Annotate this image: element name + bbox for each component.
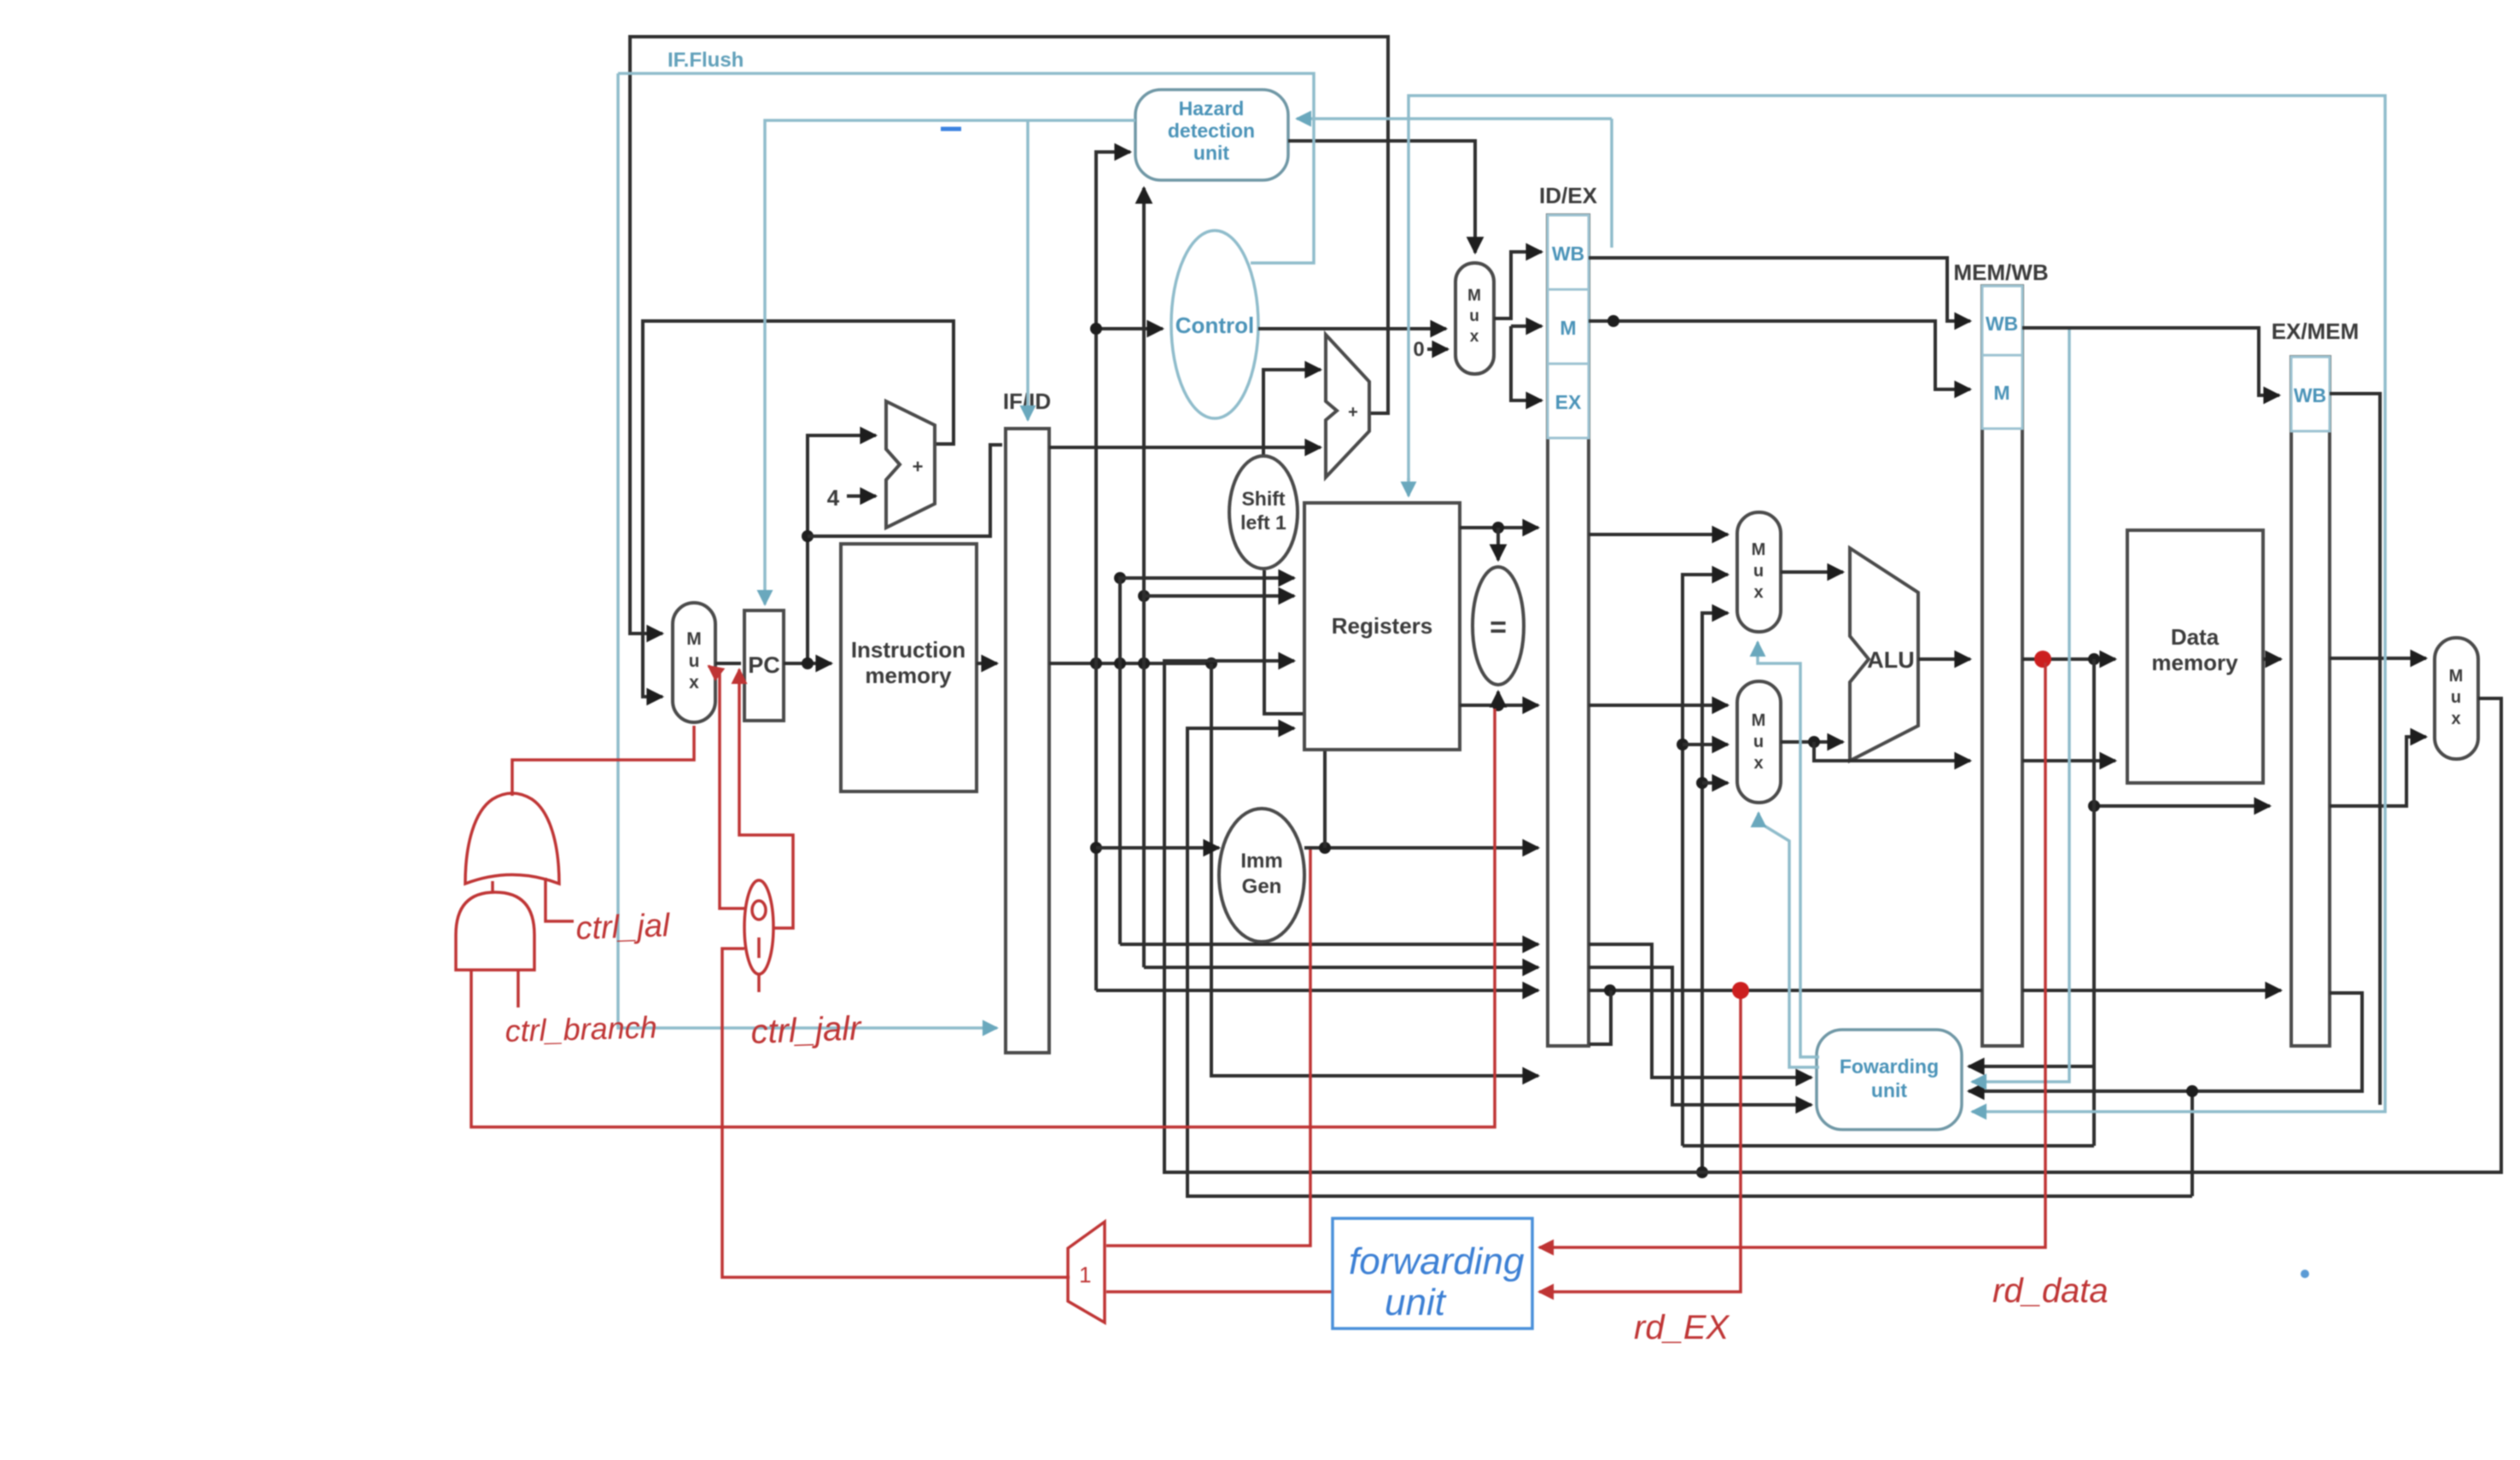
wire instr low field to ID/EX xyxy=(1211,663,1538,1076)
wire ID/EX rs1 to forwarding unit xyxy=(1589,944,1811,1077)
hand drawn forwarding unit box xyxy=(1333,1218,1532,1329)
adder A1 PC+4 xyxy=(886,401,935,528)
hazard detection unit xyxy=(1135,90,1288,180)
svg-text:memory: memory xyxy=(2151,650,2238,675)
wire ID/EX read2 to mux M4 xyxy=(1589,704,1728,707)
wire MEM/WB to data memory write port xyxy=(2022,759,2115,762)
wire OR input stub ctrl_jal xyxy=(545,878,574,921)
wire AND input right stub xyxy=(516,970,520,1007)
wire instr rs1 field to ID/EX xyxy=(1120,943,1538,946)
wire read data 1 to ID/EX xyxy=(1460,526,1538,529)
svg-text:M: M xyxy=(2449,667,2464,686)
wire red mux select into PC mux xyxy=(709,666,744,908)
svg-text:M: M xyxy=(686,629,702,649)
svg-text:rd_data: rd_data xyxy=(1992,1272,2109,1310)
gate OR red xyxy=(465,793,559,884)
wire PC+4 loop to PC mux xyxy=(643,321,954,697)
svg-text:unit: unit xyxy=(1193,142,1229,164)
svg-text:ctrl_jalr: ctrl_jalr xyxy=(750,1009,863,1051)
wire EX/MEM rd loop to forwarding unit xyxy=(1969,993,2362,1091)
EX/MEM WB box xyxy=(2291,357,2330,431)
forwarding unit box xyxy=(1817,1030,1962,1130)
wire ALU result feedback down xyxy=(2092,659,2096,1146)
data memory xyxy=(2127,530,2263,783)
svg-text:=: = xyxy=(1490,611,1507,644)
wire ALU result to forwarding unit xyxy=(1969,1065,2094,1068)
svg-text:MEM/WB: MEM/WB xyxy=(1953,260,2048,285)
red junction dot rd_EX xyxy=(1732,982,1749,999)
svg-text:u: u xyxy=(1753,562,1764,581)
wire forward fb EXMEM vertical xyxy=(1683,1144,2094,1148)
svg-text:M: M xyxy=(1752,540,1766,559)
svg-text:u: u xyxy=(1753,733,1764,751)
mux M1 (PC source) xyxy=(673,603,715,722)
svg-text:WB: WB xyxy=(1986,312,2018,335)
ellipse shift left 1 xyxy=(1229,456,1298,569)
wire EX/MEM WB to right rail xyxy=(2330,394,2380,1105)
instruction memory xyxy=(841,544,977,791)
svg-text:x: x xyxy=(2451,710,2460,728)
svg-text:x: x xyxy=(1753,583,1763,602)
wire blue ID/EX memread riser xyxy=(1610,119,1613,248)
wire blue down to forwarding unit xyxy=(1972,330,2069,1082)
svg-text:forwarding: forwarding xyxy=(1349,1241,1525,1282)
svg-text:IF.Flush: IF.Flush xyxy=(668,49,744,72)
wire instr to imm gen xyxy=(1096,846,1219,850)
wire OR output to PC mux xyxy=(512,726,694,796)
wire blue hazard to registers rail xyxy=(1409,96,2385,1112)
wire mux M3 to ALU xyxy=(1781,570,1843,574)
wire PC value to IF/ID xyxy=(808,445,1002,536)
wire instruction memory to IF/ID xyxy=(977,662,997,665)
ID/EX M box xyxy=(1548,289,1589,364)
svg-text:unit: unit xyxy=(1871,1079,1907,1101)
wire blue IF/ID write xyxy=(1026,120,1030,420)
wire instr rs2 field to ID/EX xyxy=(1144,966,1538,969)
wire store data down to MEM/WB and memory xyxy=(1814,742,1970,761)
svg-text:Fowarding: Fowarding xyxy=(1840,1055,1939,1077)
svg-text:memory: memory xyxy=(865,663,952,688)
gate AND red xyxy=(456,892,534,970)
wire instr to hazard unit xyxy=(1096,152,1130,990)
register MEM/WB xyxy=(1982,286,2022,1046)
wire read data 2 to ID/EX xyxy=(1460,704,1538,707)
svg-text:Control: Control xyxy=(1175,312,1254,338)
svg-text:unit: unit xyxy=(1385,1282,1447,1323)
svg-text:EX/MEM: EX/MEM xyxy=(2272,318,2360,344)
wire store data through EX/MEM to final mux xyxy=(2330,737,2426,806)
svg-text:0: 0 xyxy=(1413,338,1424,361)
svg-text:EX: EX xyxy=(1555,391,1582,413)
mux M2 control bubble xyxy=(1455,263,1494,374)
svg-text:1: 1 xyxy=(1079,1262,1091,1288)
svg-text:+: + xyxy=(1348,403,1358,422)
svg-text:Data: Data xyxy=(2171,624,2220,650)
wire mux to PC xyxy=(715,662,741,665)
ID/EX WB box xyxy=(1548,215,1589,289)
svg-text:x: x xyxy=(1470,328,1479,346)
wire MEM/WB WB to EX/MEM WB xyxy=(2022,328,2279,395)
comparator equality ellipse xyxy=(1473,567,1524,685)
svg-text:M: M xyxy=(1560,317,1576,339)
wire ID/EX rd stub xyxy=(1590,990,1611,1044)
wire hazard to control mux xyxy=(1288,141,1475,253)
wire ALU result to MEM/WB xyxy=(1918,657,1970,661)
wire blue left flush down to IF/ID xyxy=(618,73,997,1028)
wire shift left 1 to adder A2 xyxy=(1263,370,1321,456)
svg-text:+: + xyxy=(913,456,924,477)
svg-text:PC: PC xyxy=(748,652,780,678)
wire red oval input 1 from bottom mux xyxy=(722,949,1070,1277)
wire red oval bottom stub xyxy=(757,974,761,992)
wire blue forwardB xyxy=(1759,813,1819,1067)
wire ID/EX read1 to mux M3 xyxy=(1589,533,1728,536)
svg-text:u: u xyxy=(2451,688,2461,707)
svg-text:Instruction: Instruction xyxy=(851,637,965,663)
svg-text:ctrl_branch: ctrl_branch xyxy=(505,1009,657,1048)
wire AND output to OR xyxy=(491,881,494,892)
svg-text:Gen: Gen xyxy=(1242,875,1282,898)
wire ID/EX M to MEM/WB M xyxy=(1589,321,1970,389)
svg-text:4: 4 xyxy=(827,485,840,511)
wire red oval to PC xyxy=(739,669,793,928)
wire blue registers arrow xyxy=(1407,478,1410,496)
wire ID/EX WB to MEM/WB WB xyxy=(1589,258,1970,321)
wire imm to shift left 1 xyxy=(1264,570,1325,848)
wire to equality top xyxy=(1496,528,1500,560)
wire forward fb WB vertical xyxy=(1702,613,1728,1172)
svg-text:Registers: Registers xyxy=(1332,613,1433,639)
adder A2 branch target xyxy=(1326,335,1369,477)
svg-text:u: u xyxy=(1469,307,1479,325)
wire blue PCWrite rail xyxy=(765,120,1135,604)
wire blue forwardA xyxy=(1758,642,1819,1057)
wire red imm tap down to bottom mux xyxy=(1106,850,1310,1246)
wire IF/ID pc to adder A2 xyxy=(1049,446,1321,449)
wire 4 to adder A1 xyxy=(847,494,876,498)
annotation tiny blue mark xyxy=(2301,1270,2309,1278)
wire ALU result MEM/WB to data memory xyxy=(2022,657,2115,661)
ellipse control xyxy=(1171,231,1258,418)
wire blue IF.Flush to control xyxy=(618,73,1314,263)
wire mux M2 to ID/EX control boxes xyxy=(1494,252,1542,318)
ALU xyxy=(1850,548,1918,761)
svg-text:ctrl_jal: ctrl_jal xyxy=(575,908,672,947)
wire red rd_data to forwarding unit xyxy=(1539,663,2045,1247)
wire 0 to mux M2 xyxy=(1427,347,1448,351)
wire ID/EX rd out to EX/MEM xyxy=(1589,989,1982,992)
MEM/WB M box xyxy=(1982,355,2022,429)
svg-text:rd_EX: rd_EX xyxy=(1634,1309,1730,1346)
wire blue hazard right input xyxy=(1297,117,1612,120)
svg-text:WB: WB xyxy=(2294,384,2326,406)
wire instr rs2 to registers xyxy=(1144,594,1294,598)
wire red rd_EX to forwarding unit xyxy=(1539,992,1741,1292)
svg-text:left 1: left 1 xyxy=(1240,511,1286,534)
mux M3 ALU src A xyxy=(1737,512,1781,632)
register ID/EX xyxy=(1548,215,1589,1046)
red jalr select oval xyxy=(744,880,773,974)
wire to equality bottom xyxy=(1496,692,1500,705)
wire AND input from equality red loop xyxy=(471,709,1495,1127)
wire branch-target top frame xyxy=(630,37,1388,634)
wire mux M4 to ALU xyxy=(1781,740,1843,744)
wire writeback long path to registers write data xyxy=(1164,661,2501,1172)
wire EX/MEM to final mux xyxy=(2330,657,2426,660)
svg-text:Hazard: Hazard xyxy=(1179,97,1245,120)
wire PC up to adder A1 xyxy=(808,435,876,663)
svg-text:Shift: Shift xyxy=(1241,488,1285,510)
wire instr to control xyxy=(1096,327,1163,330)
MEM/WB WB box xyxy=(1982,286,2022,355)
svg-text:u: u xyxy=(689,651,700,671)
registers box xyxy=(1304,503,1460,750)
svg-text:x: x xyxy=(1753,754,1763,773)
register EX/MEM xyxy=(2291,357,2330,1046)
red bottom mux xyxy=(1068,1222,1105,1323)
wire rd writeback bottom to registers write register xyxy=(1187,728,2192,1196)
wire instr rs1 to registers xyxy=(1120,578,1294,944)
svg-text:ALU: ALU xyxy=(1867,647,1915,673)
annotation small blue dash xyxy=(941,127,961,131)
svg-text:WB: WB xyxy=(1552,242,1584,265)
svg-text:M: M xyxy=(1752,711,1766,730)
svg-text:x: x xyxy=(689,673,699,692)
svg-text:M: M xyxy=(1467,287,1481,305)
wire red forwarding select to bottom mux xyxy=(1106,1290,1333,1294)
wire instr rd field to ID/EX xyxy=(1096,989,1538,992)
ellipse imm gen xyxy=(1219,809,1304,942)
ID/EX EX box xyxy=(1548,364,1589,438)
wire instruction bus xyxy=(1049,662,1211,665)
wire data memory out to EX/MEM xyxy=(2263,657,2281,661)
wire PC to instruction memory xyxy=(784,662,831,665)
wire instr up to hazard bottom xyxy=(1142,188,1146,967)
svg-text:Imm: Imm xyxy=(1240,850,1282,873)
mux M4 ALU src B xyxy=(1737,681,1781,803)
mux M5 writeback xyxy=(2435,638,2478,759)
svg-text:ID/EX: ID/EX xyxy=(1539,183,1598,208)
register PC xyxy=(744,610,784,721)
wire ID/EX rs2 to forwarding unit xyxy=(1589,967,1811,1105)
register IF/ID xyxy=(1006,429,1049,1053)
wire control to mux M2 xyxy=(1258,327,1446,330)
wire imm gen output to ID/EX xyxy=(1304,846,1538,850)
svg-text:M: M xyxy=(1993,382,2010,404)
svg-text:detection: detection xyxy=(1168,120,1255,142)
